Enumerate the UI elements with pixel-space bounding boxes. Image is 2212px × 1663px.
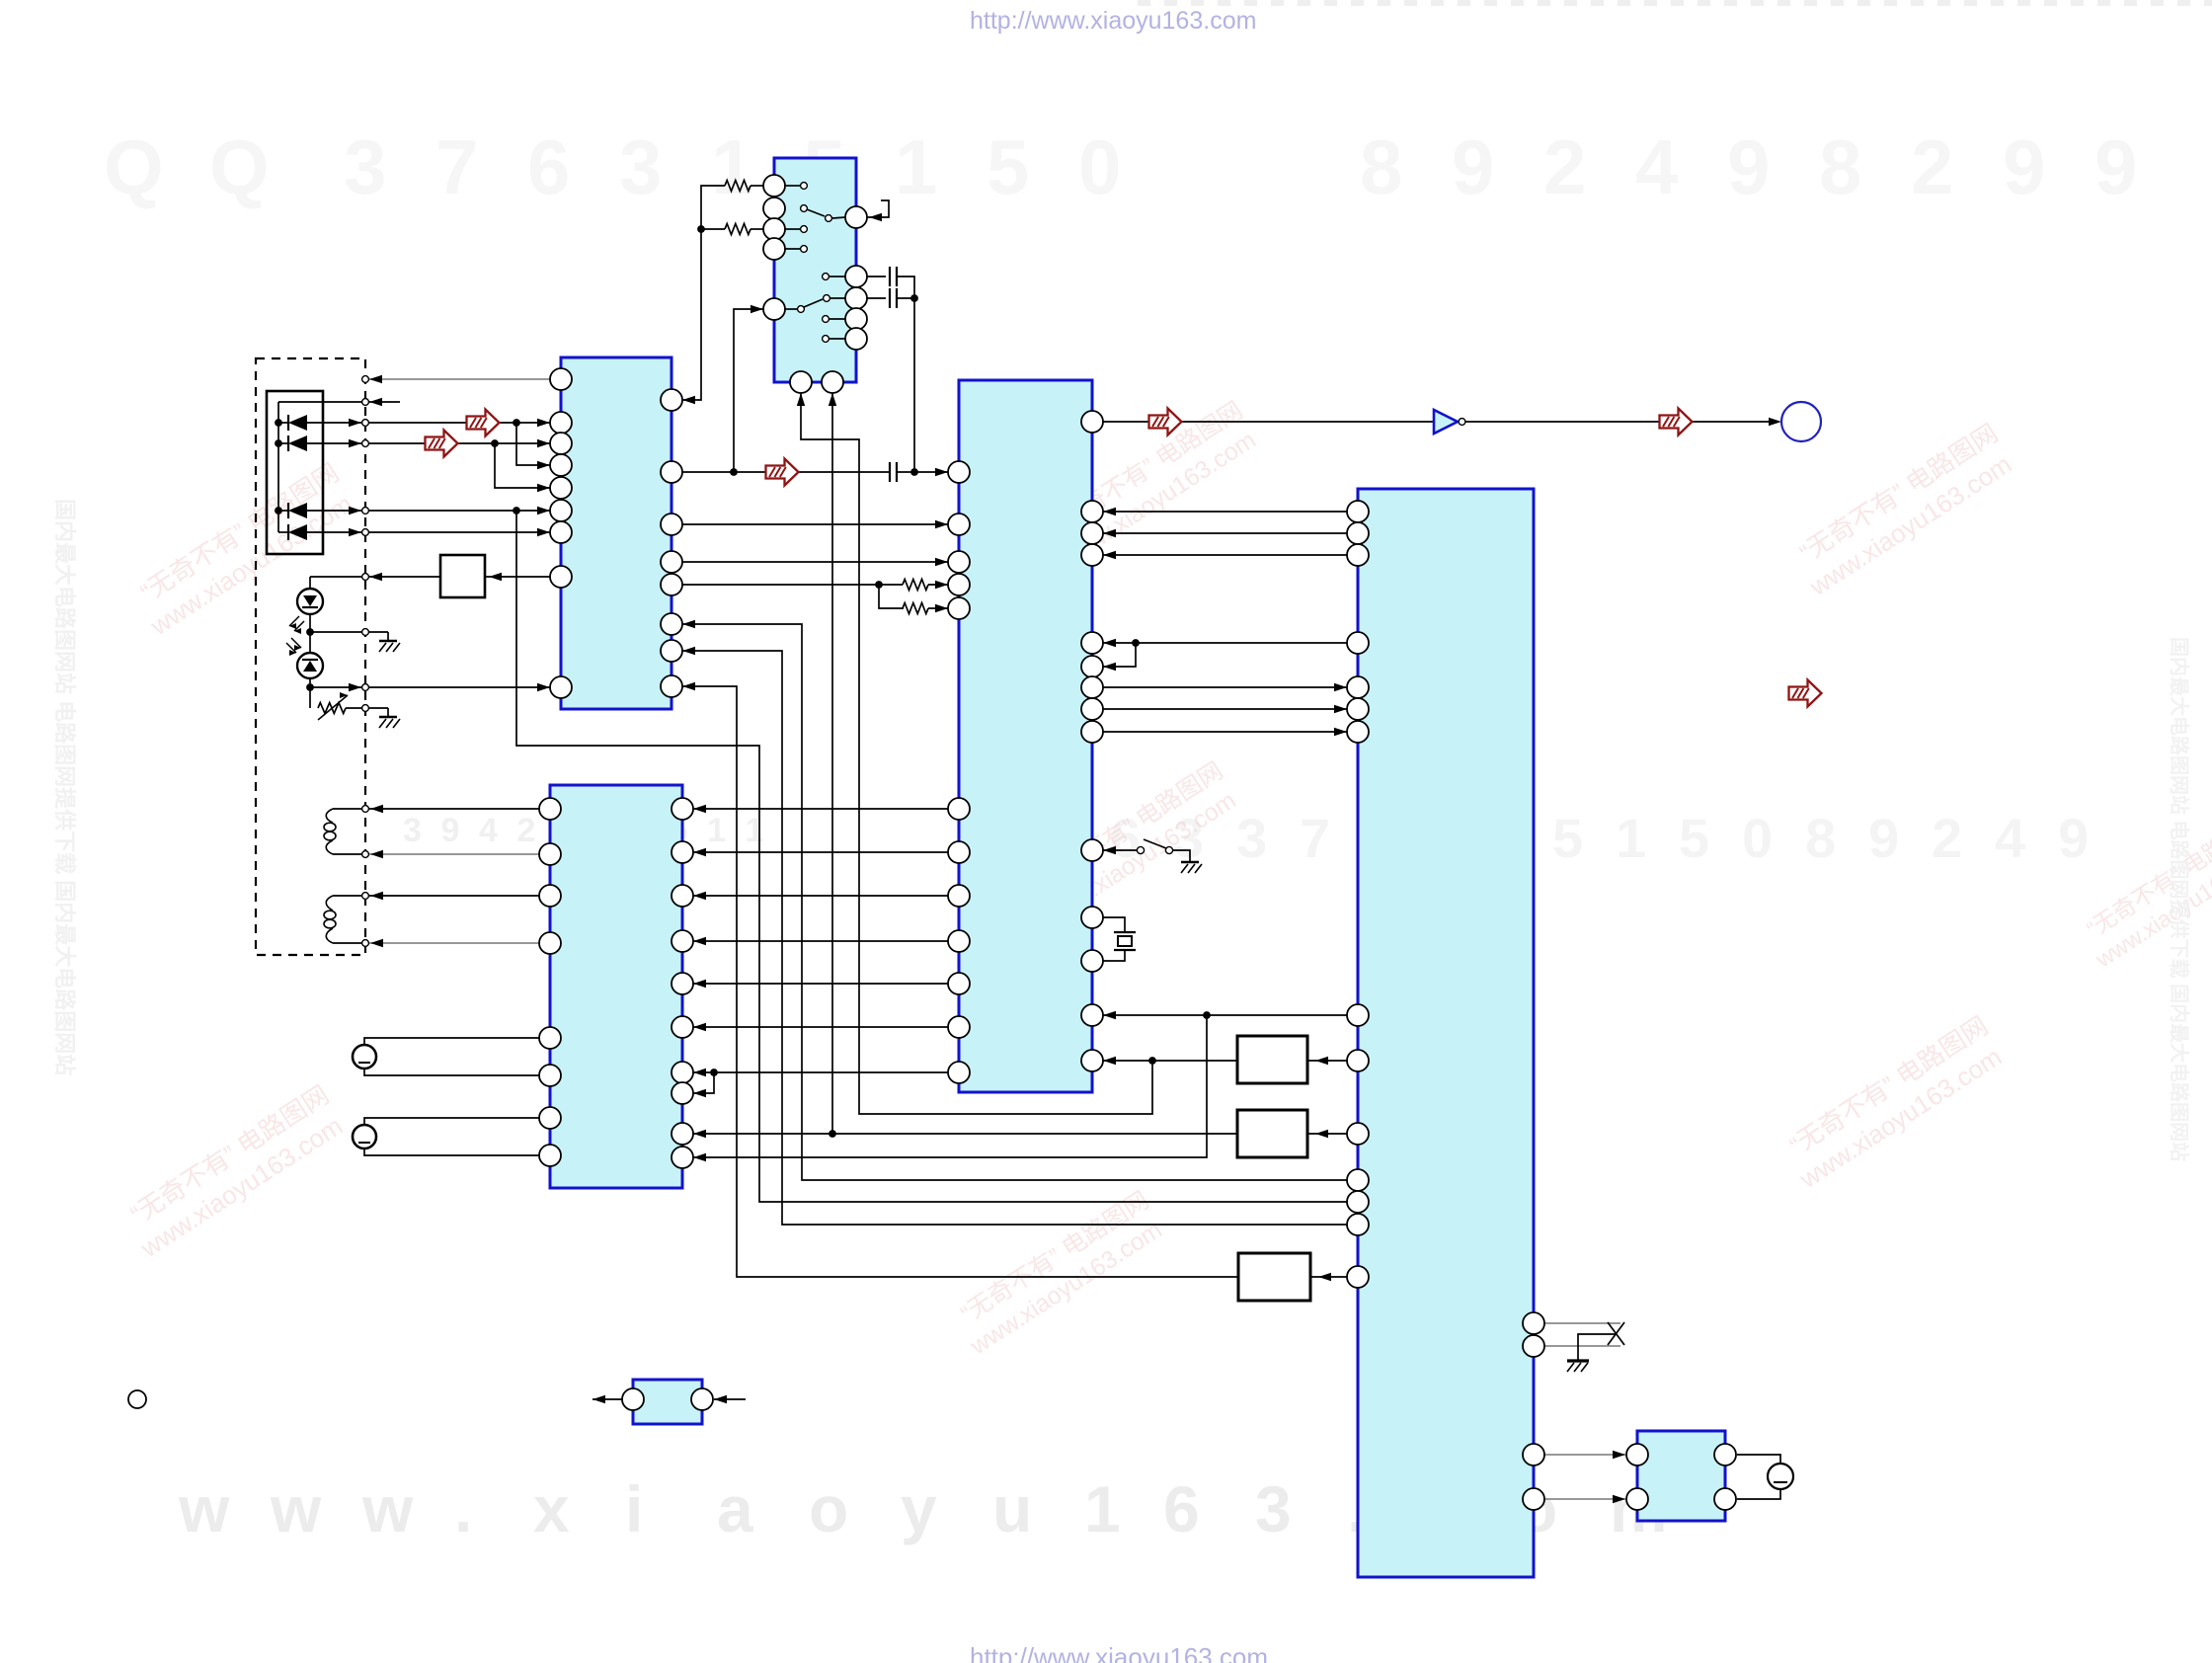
wire U5 to U1 bus xyxy=(682,624,1347,1180)
inductor L2 xyxy=(326,896,333,911)
svg-text:9: 9 xyxy=(1452,123,1494,210)
svg-text:2: 2 xyxy=(1543,123,1586,210)
wire inverter out xyxy=(1465,421,1769,423)
IC U5 xyxy=(1358,489,1534,1577)
svg-text:1: 1 xyxy=(1616,807,1646,869)
svg-text:7: 7 xyxy=(435,123,478,210)
connector contact xyxy=(362,376,369,383)
signal arrow standalone xyxy=(1789,680,1822,707)
IC U3 xyxy=(550,785,682,1188)
wire U5 to U7 xyxy=(1544,1454,1625,1456)
contact stub xyxy=(785,228,800,230)
contact stub xyxy=(785,248,800,250)
U2 left pins xyxy=(763,175,785,197)
svg-text:http://www.xiaoyu163.com: http://www.xiaoyu163.com xyxy=(970,7,1256,35)
wire branch row xyxy=(495,443,550,488)
emit arrows xyxy=(289,616,299,626)
junction xyxy=(875,581,883,589)
svg-text:o: o xyxy=(809,1472,848,1545)
svg-text:7: 7 xyxy=(1300,807,1330,869)
svg-text:y: y xyxy=(901,1472,937,1545)
terminal TP1 xyxy=(1781,402,1821,441)
svg-text:3: 3 xyxy=(619,123,662,210)
wire U5 to A2 xyxy=(1307,1060,1347,1062)
svg-text:2: 2 xyxy=(1911,123,1953,210)
junction xyxy=(513,507,520,515)
wire hook xyxy=(867,200,889,217)
wire U4 to U3 xyxy=(693,808,948,810)
svg-text:5: 5 xyxy=(1552,807,1583,869)
connector contact xyxy=(362,629,369,636)
box A1 xyxy=(440,555,485,597)
wire pin1 row xyxy=(369,378,550,380)
wire A2 out xyxy=(1103,1060,1237,1062)
svg-text:0: 0 xyxy=(1078,123,1121,210)
U3 left pins xyxy=(539,798,561,820)
capacitor C2 xyxy=(889,288,891,308)
wire U5 to A4 xyxy=(1310,1276,1347,1278)
resistor R4 xyxy=(903,603,928,614)
wire r1 to U2 xyxy=(750,185,763,187)
junction xyxy=(829,1130,836,1138)
U1 right pins xyxy=(661,389,682,411)
U6 pins xyxy=(622,1388,644,1410)
resistor R1 xyxy=(725,181,750,192)
wire to C2 xyxy=(867,297,886,299)
termination X xyxy=(1608,1322,1624,1345)
svg-text:6: 6 xyxy=(527,123,570,210)
U2 right pins xyxy=(845,206,867,228)
wire U1 to U4 xyxy=(682,561,948,563)
U3 right pins xyxy=(671,798,693,820)
wire U4 to U3 pair xyxy=(693,1071,948,1073)
switch block U2 xyxy=(774,158,856,382)
U5 right pins xyxy=(1523,1312,1544,1334)
wire c1 corner xyxy=(897,277,914,298)
IC U1 xyxy=(561,357,671,709)
junction xyxy=(910,468,918,476)
svg-text:5: 5 xyxy=(987,123,1029,210)
wire box A1 out xyxy=(310,576,440,578)
wire D4 to U1 xyxy=(369,531,550,533)
wire U1 to box A1 xyxy=(485,576,550,578)
wire r2 stub xyxy=(701,228,725,230)
wire U4 row to U3 xyxy=(693,1015,1207,1157)
svg-text:9: 9 xyxy=(1868,807,1899,869)
svg-text:8: 8 xyxy=(1805,807,1836,869)
ground xyxy=(387,708,389,717)
wire shield tap xyxy=(1578,1334,1617,1360)
diode pack outline xyxy=(267,391,323,554)
switch SW3 xyxy=(1103,849,1137,851)
svg-text:5: 5 xyxy=(1679,807,1709,869)
wire U5 to U7 xyxy=(1544,1498,1625,1500)
wire U4 to U3 xyxy=(693,940,948,942)
svg-text:4: 4 xyxy=(1635,123,1678,210)
diode D2 xyxy=(287,436,289,451)
wire U7 loop xyxy=(1737,1489,1780,1499)
junction xyxy=(306,683,314,691)
svg-text:i: i xyxy=(625,1472,643,1545)
block U6 xyxy=(633,1380,702,1424)
svg-text:0: 0 xyxy=(1742,807,1773,869)
junction xyxy=(513,419,520,427)
resistor R3 xyxy=(903,580,928,591)
connector contact xyxy=(362,574,369,581)
svg-text:9: 9 xyxy=(2003,123,2045,210)
wire photo gnd row xyxy=(310,631,388,633)
wire U4 to U5 xyxy=(1103,686,1347,688)
box A3 xyxy=(1237,1110,1307,1157)
wire D3 to U1 xyxy=(369,510,550,512)
svg-text:3: 3 xyxy=(344,123,386,210)
wire pin2 row with stub xyxy=(278,401,400,403)
variable resistor VR1 xyxy=(318,703,346,714)
U2 bottom pins xyxy=(790,371,812,393)
svg-text:6: 6 xyxy=(1163,1472,1200,1545)
junction xyxy=(275,439,282,447)
svg-text:2: 2 xyxy=(1932,807,1962,869)
junction xyxy=(910,294,918,302)
connector contact xyxy=(362,684,369,691)
U1 left pins xyxy=(550,368,572,390)
wire D2 to U1 xyxy=(369,442,550,444)
svg-text:w: w xyxy=(270,1472,322,1545)
wire clock out xyxy=(1103,421,1434,423)
capacitor C1 xyxy=(889,267,891,286)
svg-text:3: 3 xyxy=(1255,1472,1292,1545)
wire branch xyxy=(1103,643,1136,667)
IC U4 xyxy=(959,380,1092,1092)
junction xyxy=(730,468,738,476)
junction xyxy=(710,1069,718,1076)
svg-text:1: 1 xyxy=(746,812,764,849)
box A4 xyxy=(1238,1253,1310,1301)
svg-text:国内最大电路图网站 电路图网提供下载 国内最大电路图网站: 国内最大电路图网站 电路图网提供下载 国内最大电路图网站 xyxy=(52,499,77,1075)
inverter G1 xyxy=(1434,410,1458,434)
wire U1 split xyxy=(682,584,879,586)
svg-text:a: a xyxy=(717,1472,754,1545)
LED D5 xyxy=(297,589,323,614)
U4 left pins xyxy=(948,461,970,483)
box A2 xyxy=(1237,1036,1307,1083)
svg-text:国内最大电路图网站 电路图网提供下载 国内最大电路图网站: 国内最大电路图网站 电路图网提供下载 国内最大电路图网站 xyxy=(2168,637,2191,1161)
svg-text:1: 1 xyxy=(895,123,937,210)
svg-text:4: 4 xyxy=(1995,807,2025,869)
source SG1 xyxy=(364,1038,539,1045)
wire to C1 xyxy=(867,276,886,277)
wire U4 to U5 xyxy=(1103,731,1347,733)
wire U4 to U3 xyxy=(693,1026,948,1028)
wire branch xyxy=(693,1072,714,1093)
svg-text:.: . xyxy=(454,1472,472,1545)
wire U4 to U3 xyxy=(693,983,948,985)
ground xyxy=(387,632,389,641)
U4 right pins xyxy=(1081,411,1103,433)
block U7 xyxy=(1637,1431,1725,1521)
connector CN1 (dashed enclosure) xyxy=(256,358,365,955)
connector contact xyxy=(362,705,369,712)
wire A4 to U1 bus xyxy=(682,686,1237,1277)
source SG3 xyxy=(1768,1464,1793,1489)
connector contact xyxy=(362,399,369,406)
bus diode anode rail xyxy=(277,402,279,532)
crystal X1 xyxy=(1103,917,1125,932)
svg-text:Q: Q xyxy=(104,123,164,210)
svg-text:http://www.xiaoyu163.com: http://www.xiaoyu163.com xyxy=(970,1642,1268,1663)
junction xyxy=(697,225,705,233)
svg-text:3: 3 xyxy=(403,812,422,849)
photodiode D6 xyxy=(297,653,323,678)
junction xyxy=(1148,1057,1156,1065)
svg-text:1: 1 xyxy=(707,812,726,849)
contact stub xyxy=(785,185,800,187)
svg-text:9: 9 xyxy=(1727,123,1770,210)
source SG2 xyxy=(364,1118,539,1125)
contact stub xyxy=(823,274,829,280)
wire U5 to U4 xyxy=(1103,511,1347,513)
resistor R2 xyxy=(725,224,750,235)
wire U5 to U1 bus xyxy=(682,651,1347,1225)
wire vr to gnd xyxy=(346,707,388,709)
wire c2 join xyxy=(897,297,914,299)
wire led bottom xyxy=(309,678,311,708)
diode D3 xyxy=(287,503,289,518)
ground xyxy=(1567,1359,1589,1362)
diode D4 xyxy=(287,524,289,540)
junction xyxy=(275,419,282,427)
wire up to U2 pin xyxy=(734,309,763,472)
junction xyxy=(1203,1011,1211,1019)
signal arrow xyxy=(766,459,799,486)
svg-text:8: 8 xyxy=(1360,123,1402,210)
signal arrow xyxy=(1149,409,1182,436)
svg-text:9: 9 xyxy=(441,812,460,849)
svg-text:u: u xyxy=(992,1472,1032,1545)
junction xyxy=(491,439,499,447)
svg-text:w: w xyxy=(361,1472,414,1545)
contact stub xyxy=(823,316,829,323)
wire coil stub xyxy=(333,942,361,944)
signal arrow xyxy=(467,410,500,436)
wire U5 to U4 xyxy=(1103,532,1347,534)
connector contact xyxy=(362,806,369,813)
svg-text:3: 3 xyxy=(1236,807,1267,869)
wire r2 to U2 xyxy=(750,228,763,230)
wire coil row xyxy=(333,895,539,897)
contact stub xyxy=(823,336,829,343)
svg-text:9: 9 xyxy=(2058,807,2089,869)
wire box A3 out xyxy=(693,1133,1237,1135)
wire U1 to U4 xyxy=(682,523,948,525)
wire coil row gray xyxy=(363,853,539,855)
wire D1 to U1 xyxy=(369,422,550,424)
svg-text:9: 9 xyxy=(2094,123,2137,210)
wire led stem xyxy=(309,577,311,589)
wire sensor out xyxy=(310,686,550,688)
connector contact xyxy=(362,420,369,427)
diode D1 xyxy=(287,415,289,431)
wire U5 to U4 xyxy=(1103,554,1347,556)
capacitor C3 xyxy=(889,462,891,482)
signal arrow xyxy=(1660,409,1693,436)
wire coil row xyxy=(333,808,539,810)
svg-text:8: 8 xyxy=(1819,123,1861,210)
signal arrow xyxy=(426,431,458,457)
junction xyxy=(306,628,314,636)
wire led join xyxy=(309,614,311,653)
wire U6 out xyxy=(592,1398,622,1400)
U7 pins xyxy=(1626,1444,1648,1465)
wire coil row gray xyxy=(363,942,539,944)
connector contact xyxy=(362,529,369,536)
switch SW1 xyxy=(801,205,808,212)
wire U5 to U4 pair xyxy=(1103,642,1347,644)
wire coil stub xyxy=(333,853,361,855)
wire U1 feed xyxy=(682,186,725,400)
junction xyxy=(1132,639,1140,647)
wire U4 to U3 xyxy=(693,851,948,853)
wire from box A3 to U2 xyxy=(831,393,833,1134)
inductor L1 xyxy=(326,809,333,823)
wire long run to U5 xyxy=(516,511,1347,1202)
wire U4 to U5 xyxy=(1103,708,1347,710)
wire U6 in xyxy=(714,1398,746,1400)
recv arrows xyxy=(286,643,296,653)
wire U5 to A3 xyxy=(1307,1133,1347,1135)
connector contact xyxy=(362,893,369,900)
svg-text:Q: Q xyxy=(209,123,270,210)
junction xyxy=(275,507,282,515)
wire diff pair gray xyxy=(1544,1345,1620,1347)
connector contact xyxy=(362,508,369,515)
terminal circle xyxy=(128,1390,146,1408)
connector contact xyxy=(362,851,369,858)
wire A2 control xyxy=(1103,1014,1347,1016)
connector contact xyxy=(362,440,369,447)
svg-text:1: 1 xyxy=(711,123,753,210)
svg-text:1: 1 xyxy=(1084,1472,1121,1545)
svg-text:2: 2 xyxy=(517,812,536,849)
svg-text:w: w xyxy=(178,1472,230,1545)
wire branch row xyxy=(516,423,550,465)
connector contact xyxy=(362,940,369,947)
wire U1 main out xyxy=(682,471,889,473)
ground xyxy=(1181,861,1199,864)
wire from box A2 to U2 xyxy=(801,393,1152,1114)
wire U7 loop xyxy=(1737,1455,1780,1464)
svg-text:4: 4 xyxy=(479,812,498,849)
switch SW2 xyxy=(785,308,797,310)
svg-text:x: x xyxy=(533,1472,570,1545)
wire U4 to U3 xyxy=(693,895,948,897)
wire drop xyxy=(879,585,904,608)
wire diff pair gray xyxy=(1544,1322,1620,1324)
wire to U4 xyxy=(898,471,948,473)
U5 left pins xyxy=(1347,501,1369,522)
wire down to main row xyxy=(913,298,915,472)
